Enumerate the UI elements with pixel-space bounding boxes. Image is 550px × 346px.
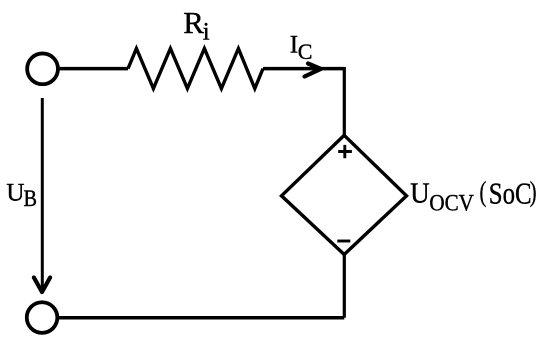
- svg-text:C: C: [298, 39, 313, 64]
- wire top-left horizontal: [58, 67, 129, 71]
- current arrow head IC: [305, 64, 322, 77]
- wire diamond bottom down: [343, 254, 346, 318]
- wire bottom horizontal: [57, 316, 344, 320]
- svg-text:U: U: [6, 179, 24, 206]
- svg-text:): ): [530, 176, 537, 208]
- voltage arrow UB head: [34, 278, 50, 293]
- terminal circle top-left: [27, 53, 58, 84]
- svg-text:R: R: [183, 5, 204, 40]
- svg-text:i: i: [203, 18, 210, 45]
- plus sign inside diamond: [338, 145, 352, 158]
- svg-text:SoC: SoC: [489, 176, 532, 211]
- svg-text:B: B: [24, 186, 38, 211]
- svg-text:U: U: [410, 178, 430, 210]
- svg-text:(: (: [480, 176, 487, 208]
- wire resistor to corner: [263, 67, 345, 71]
- dependent source diamond: [282, 135, 407, 254]
- resistor R1 zigzag: [128, 49, 263, 89]
- minus sign inside diamond: [337, 240, 350, 243]
- terminal circle bottom-left: [27, 302, 58, 333]
- voltage arrow UB shaft: [41, 98, 44, 290]
- svg-text:OCV: OCV: [429, 190, 474, 215]
- wire corner down to diamond: [343, 67, 346, 136]
